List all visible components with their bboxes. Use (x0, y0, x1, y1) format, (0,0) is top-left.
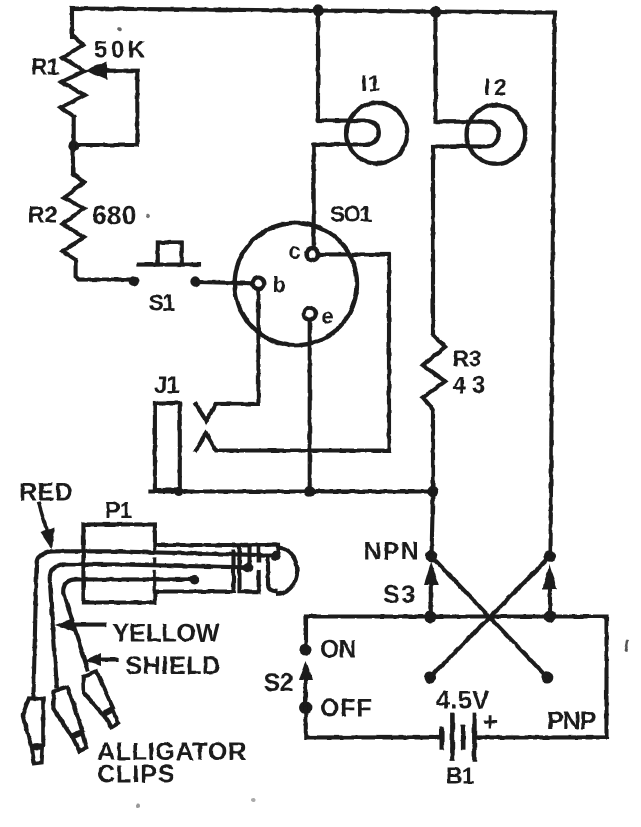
svg-text:RED: RED (19, 479, 73, 507)
resistor R1 (potentiometer) (61, 35, 85, 117)
plug shaft (155, 543, 234, 547)
arrow YELLOW pointer (72, 623, 104, 627)
conductor shield (76, 577, 192, 581)
wire bottom right (474, 735, 606, 739)
svg-text:CLIPS: CLIPS (97, 761, 176, 789)
svg-text:P1: P1 (105, 497, 132, 523)
wire e to ground bus (308, 320, 312, 492)
svg-text:c: c (289, 239, 301, 264)
svg-text:YELLOW: YELLOW (113, 620, 220, 648)
wire c to jack lower contact (196, 254, 389, 450)
lamp I1 (347, 103, 408, 164)
wire right loop vertical (604, 617, 608, 738)
node I1 top junction (312, 5, 323, 16)
wire S3 bus (306, 614, 607, 618)
svg-text:I1: I1 (361, 71, 381, 96)
svg-text:R3: R3 (453, 346, 481, 372)
node I2 top junction (430, 6, 441, 17)
socket SO1 circle (235, 223, 357, 345)
svg-text:e: e (322, 304, 334, 329)
S3 arrow left (429, 580, 433, 617)
svg-text:SO1: SO1 (330, 202, 372, 227)
arrow SHIELD pointer (99, 657, 117, 661)
wiper arrow R1 (85, 61, 108, 80)
wire red lead (34, 551, 55, 695)
plug ring 1 (238, 543, 251, 547)
svg-text:ON: ON (320, 636, 356, 664)
wire S3 diagonal A (430, 556, 550, 677)
svg-text:SHIELD: SHIELD (126, 652, 221, 680)
svg-text:B1: B1 (446, 763, 475, 789)
battery B1 (439, 729, 444, 748)
alligator clip 2 (48, 686, 90, 754)
wire top bus (72, 9, 555, 13)
wire R1 bottom to junction (72, 117, 76, 146)
svg-text:PNP: PNP (547, 707, 596, 735)
svg-text:b: b (273, 272, 286, 297)
terminal c (306, 248, 318, 260)
terminal e (304, 308, 316, 320)
wire S3 diagonal B (432, 556, 548, 677)
svg-text:50K: 50K (94, 37, 149, 64)
terminal b (252, 278, 264, 290)
plug ring 2 (254, 543, 267, 547)
resistor R3 (423, 335, 445, 492)
svg-text:OFF: OFF (320, 695, 372, 723)
wire bottom left (306, 735, 442, 739)
wire ground bus (150, 489, 433, 493)
node jack sleeve (174, 487, 183, 496)
switch S2 (304, 617, 308, 651)
svg-text:J1: J1 (154, 372, 179, 399)
lamp I2 (467, 105, 526, 164)
svg-text:S3: S3 (383, 581, 418, 609)
wire wiper return (78, 71, 137, 145)
svg-text:R2: R2 (28, 202, 57, 228)
switch S1 pushbutton (129, 276, 139, 286)
switch S3 crossover (426, 550, 438, 562)
speck bottom (136, 804, 140, 808)
svg-text:43: 43 (453, 372, 492, 399)
svg-text:S1: S1 (149, 290, 176, 316)
node R3 bottom junction (427, 486, 438, 497)
arrow RED pointer (39, 504, 48, 533)
svg-text:NPN: NPN (364, 538, 420, 566)
speck right of 680 (146, 214, 150, 218)
wire S1 to b (199, 282, 253, 283)
svg-text:680: 680 (92, 200, 137, 230)
svg-text:S2: S2 (264, 669, 294, 697)
speck right margin (626, 641, 628, 650)
speck above 50K (117, 27, 122, 32)
node R1/R2 junction (68, 141, 78, 151)
jack J1 body (155, 403, 180, 490)
wire b to jack upper contact (196, 289, 258, 421)
svg-text:I2: I2 (484, 74, 510, 100)
plug P1 body (83, 524, 154, 602)
wire yellow lead (50, 564, 65, 686)
S3 arrow right (548, 586, 552, 617)
node e junction (304, 486, 315, 497)
resistor R2 (63, 146, 131, 280)
plug tip (269, 543, 279, 547)
svg-text:R1: R1 (31, 54, 60, 80)
wire R3 junction to S3 (432, 492, 434, 557)
svg-text:4.5V: 4.5V (436, 687, 489, 715)
wire right vertical (551, 13, 555, 557)
conductor yellow (64, 564, 246, 567)
conductor red (52, 551, 273, 555)
wire shield lead (63, 579, 87, 669)
alligator clip 1 (22, 698, 44, 764)
wire left vertical to R1 (70, 9, 74, 38)
svg-text:+: + (483, 707, 498, 737)
alligator clip 3 (77, 671, 121, 732)
